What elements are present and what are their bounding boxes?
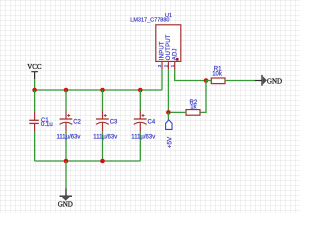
svg-text:C3: C3 (110, 119, 118, 125)
svg-text:111µ/63v: 111µ/63v (93, 134, 117, 140)
svg-text:+5V: +5V (166, 136, 173, 148)
svg-text:LM317_C77880: LM317_C77880 (130, 18, 169, 24)
junction bottom rail at C2/GND (64, 159, 69, 164)
capacitor C2 (60, 111, 73, 132)
wire C4 bottom (139, 131, 141, 161)
wire GND stem (65, 161, 67, 189)
power flag VCC (27, 63, 42, 79)
junction top rail at C2 (64, 88, 69, 93)
ground GND bottom (58, 189, 73, 209)
svg-text:VCC: VCC (27, 63, 42, 71)
wire C2 top (65, 90, 67, 111)
svg-text:111µ/63v: 111µ/63v (57, 134, 81, 140)
wire U1 OUTPUT down (167, 69, 169, 112)
wire C3 bottom (102, 131, 104, 161)
U1 symbol dot (176, 58, 179, 61)
svg-text:C2: C2 (73, 119, 81, 125)
junction top rail at C4 (138, 88, 143, 93)
wire node down to R2 (200, 81, 206, 113)
svg-text:OUTPUT: OUTPUT (166, 34, 172, 60)
svg-text:1k: 1k (190, 105, 197, 111)
junction top rail at C3 (100, 88, 105, 93)
resistor R2 (186, 110, 200, 116)
pin 3 stub (INPUT) (161, 61, 163, 69)
capacitor C3 (96, 111, 109, 132)
wire C2 bottom (65, 131, 67, 161)
ic U1 body (156, 25, 181, 62)
wire stub to +5V flag (167, 112, 169, 120)
wire bottom rail (35, 160, 141, 162)
ground GND right (255, 75, 282, 86)
wire C1 top (34, 90, 36, 112)
wire C4 top (139, 90, 141, 111)
wire VCC stem (34, 79, 36, 90)
junction OUTPUT/R2/+5V (166, 110, 171, 115)
pin 1 stub (ADJ) (174, 61, 176, 69)
wire C1 bottom (34, 132, 36, 161)
net flag +5V (166, 120, 174, 148)
wire riser to U1 INPUT pin (161, 69, 163, 90)
wire U1 ADJ to R1 node (175, 69, 206, 81)
wire C3 top (102, 90, 104, 111)
junction ADJ/R1/R2 node (204, 78, 209, 83)
svg-text:0.1u: 0.1u (41, 122, 53, 128)
svg-text:10k: 10k (212, 71, 223, 77)
capacitor C4 (134, 111, 147, 132)
svg-text:GND: GND (267, 78, 282, 86)
wire R2 to OUTPUT net (168, 111, 186, 113)
svg-text:INPUT: INPUT (160, 41, 166, 60)
wire R1 to GND (225, 80, 255, 82)
junction top rail at VCC/C1 (32, 88, 37, 93)
junction bottom rail at C3 (100, 159, 105, 164)
wire top rail VCC (35, 89, 162, 91)
wire node to R1 (206, 80, 211, 82)
svg-text:111µ/63v: 111µ/63v (131, 134, 155, 140)
svg-text:GND: GND (58, 200, 73, 208)
pin 2 stub (OUTPUT) (167, 61, 169, 69)
svg-text:C4: C4 (148, 119, 156, 125)
resistor R1 (211, 78, 225, 84)
capacitor C1 (29, 112, 39, 132)
